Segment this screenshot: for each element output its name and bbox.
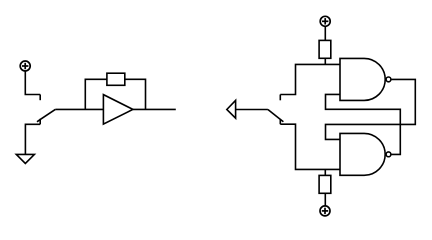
- port arrow OUT: [227, 100, 236, 118]
- wire R2 to V2: [324, 26, 326, 40]
- switch SW1 arm: [37, 109, 55, 121]
- wire SW1 bottom throw to ground: [25, 124, 40, 154]
- switch SW1 top throw contact: [39, 95, 41, 101]
- wire R3 to V3: [324, 193, 326, 206]
- nand gate U3: [340, 133, 391, 175]
- op-amp U1: [103, 95, 132, 125]
- wire feedback left riser: [85, 79, 107, 109]
- switch SW1 bottom throw contact: [39, 119, 41, 125]
- resistor R3: [319, 175, 331, 193]
- resistor R1: [107, 73, 125, 85]
- wire SW1 pole to U1 input: [55, 108, 103, 110]
- switch SW2 bottom throw contact: [279, 119, 281, 124]
- wire U3 output to U2 bottom input: [326, 94, 401, 154]
- ground: [16, 154, 34, 163]
- wire R2 stub to node S: [324, 58, 326, 64]
- wire U1 output: [133, 108, 176, 110]
- power source V1: [20, 61, 30, 71]
- power source V3: [320, 206, 330, 216]
- resistor R2: [319, 40, 331, 58]
- wire SW2 top throw to node S: [280, 64, 340, 94]
- nand gate U2: [340, 58, 391, 100]
- wire V1 to SW1 top throw: [25, 71, 40, 95]
- switch SW2 arm: [268, 110, 284, 122]
- switch SW2 top throw contact: [279, 95, 281, 101]
- wire feedback right riser: [125, 79, 146, 109]
- wire R3 stub to node R: [324, 169, 326, 175]
- wire SW2 bottom throw to node R: [280, 124, 340, 169]
- wire arrow to SW2 pole: [236, 109, 268, 111]
- power source V2: [320, 16, 330, 26]
- wire U2 output to U3 top input: [326, 79, 416, 139]
